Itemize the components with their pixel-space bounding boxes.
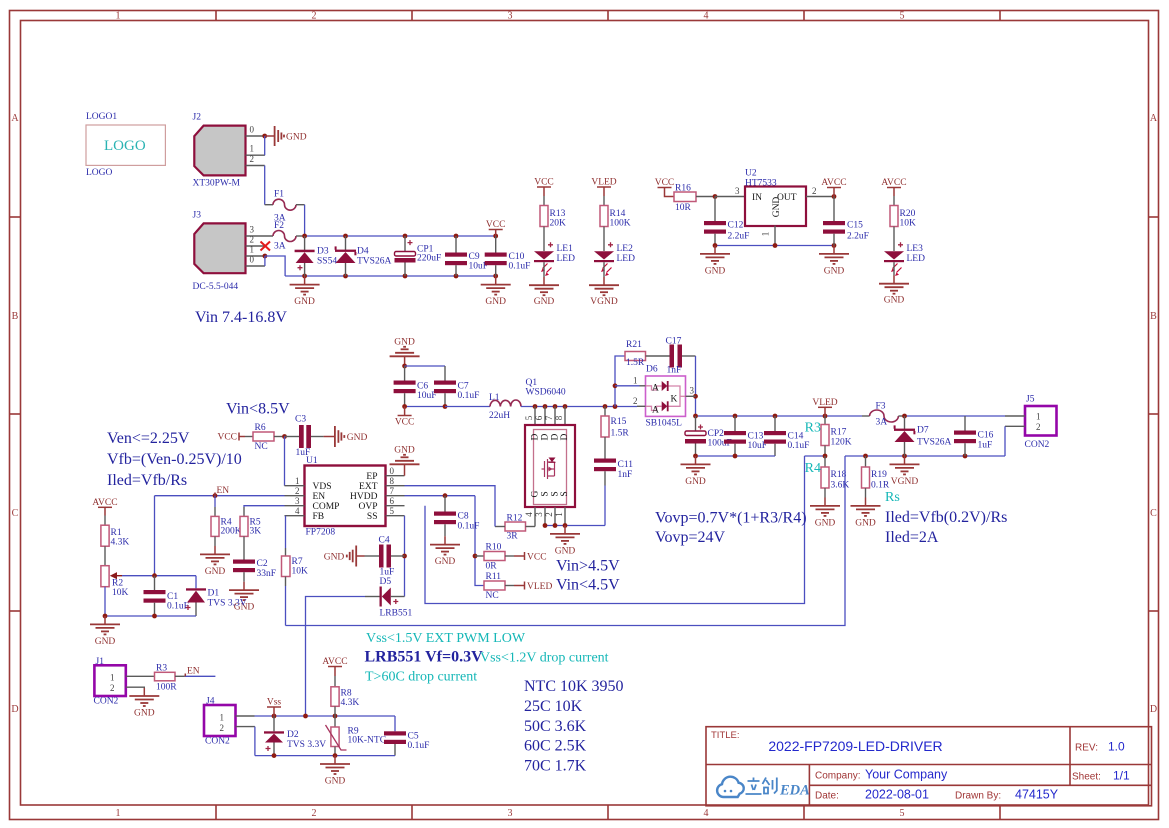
- svg-text:R7: R7: [292, 557, 303, 567]
- svg-text:VGND: VGND: [891, 477, 919, 487]
- svg-text:1: 1: [295, 476, 300, 486]
- svg-text:REV:: REV:: [1075, 743, 1098, 754]
- svg-text:GND: GND: [205, 567, 226, 577]
- power flag VCC at R16: [655, 178, 675, 197]
- svg-text:VLED: VLED: [527, 582, 552, 592]
- wire EN from U1 pin2: [155, 495, 285, 497]
- capacitor C9 10uF: [445, 236, 488, 276]
- svg-text:Date:: Date:: [815, 791, 839, 802]
- svg-text:D: D: [11, 704, 18, 715]
- svg-text:0.1uF: 0.1uF: [788, 441, 810, 451]
- svg-text:F2: F2: [274, 221, 284, 231]
- svg-text:LE2: LE2: [617, 244, 634, 254]
- capacitor C6 10uF: [394, 366, 437, 407]
- svg-text:C14: C14: [788, 432, 804, 442]
- capacitor C2 33nF: [233, 559, 276, 582]
- svg-text:LED: LED: [617, 254, 636, 264]
- transistor Q1 WSD6040: [524, 378, 575, 527]
- svg-text:Vin<8.5V: Vin<8.5V: [226, 401, 290, 418]
- ground below R18: [810, 498, 840, 529]
- svg-text:120K: 120K: [831, 438, 852, 448]
- svg-text:1: 1: [110, 673, 115, 683]
- svg-text:D: D: [551, 433, 561, 440]
- power flag VCC below C6: [395, 407, 415, 428]
- svg-text:C: C: [12, 508, 19, 519]
- LED LE1: [534, 242, 575, 277]
- junction U2 output node: [832, 194, 837, 199]
- svg-text:D6: D6: [646, 365, 658, 375]
- svg-text:R4: R4: [805, 461, 821, 476]
- svg-text:GND: GND: [772, 197, 782, 218]
- svg-text:3: 3: [295, 496, 300, 506]
- svg-text:R13: R13: [550, 209, 566, 219]
- svg-text:AVCC: AVCC: [821, 178, 846, 188]
- wire F3 to J5: [905, 415, 1006, 417]
- svg-text:60C 2.5K: 60C 2.5K: [524, 738, 587, 755]
- svg-text:2: 2: [1036, 422, 1041, 432]
- svg-text:5: 5: [524, 415, 534, 420]
- svg-text:1: 1: [116, 11, 121, 22]
- svg-text:2.2uF: 2.2uF: [847, 232, 869, 242]
- svg-text:220uF: 220uF: [417, 254, 441, 264]
- resistor R4 200K: [211, 496, 242, 546]
- svg-text:0: 0: [250, 125, 255, 135]
- power flag VLED at R11: [514, 582, 552, 593]
- svg-text:Vin>4.5V: Vin>4.5V: [556, 558, 620, 575]
- wire F1 down to input rail: [304, 205, 306, 236]
- IC U1 FP7208: [285, 456, 405, 538]
- svg-text:0.1R: 0.1R: [871, 481, 890, 491]
- svg-text:VGND: VGND: [590, 297, 618, 307]
- svg-text:VCC: VCC: [527, 553, 547, 563]
- svg-text:2: 2: [220, 723, 225, 733]
- wire VCC node to L1: [445, 406, 490, 408]
- capacitor C4 1uF: [365, 536, 405, 578]
- svg-text:47415Y: 47415Y: [1015, 788, 1059, 802]
- svg-text:1: 1: [250, 144, 255, 154]
- svg-text:1.5R: 1.5R: [626, 358, 645, 368]
- svg-text:2: 2: [312, 808, 317, 819]
- svg-text:NTC 10K 3950: NTC 10K 3950: [524, 678, 624, 695]
- ground below C2: [229, 582, 259, 613]
- svg-text:4: 4: [295, 506, 300, 516]
- svg-text:R18: R18: [831, 470, 847, 480]
- svg-text:C8: C8: [458, 512, 469, 522]
- svg-text:C3: C3: [295, 415, 306, 425]
- potentiometer R2 10K: [101, 566, 129, 616]
- wire C17 right down to output rail: [695, 356, 697, 416]
- wire EN stub: [185, 675, 216, 677]
- fuse F1 3A: [265, 190, 305, 224]
- wire C7 bottom to C6 bottom: [405, 406, 445, 408]
- svg-text:10K: 10K: [112, 588, 129, 598]
- svg-text:R10: R10: [486, 543, 502, 553]
- svg-text:J3: J3: [193, 211, 202, 221]
- svg-text:0: 0: [390, 466, 395, 476]
- capacitor C12 2.2uF: [704, 197, 749, 246]
- connector J5 CON2: [1005, 395, 1057, 451]
- svg-text:D5: D5: [380, 577, 392, 587]
- svg-text:GND: GND: [347, 433, 368, 443]
- ground flipped above C6 C7: [390, 338, 420, 367]
- svg-text:COMP: COMP: [313, 502, 340, 512]
- svg-text:1: 1: [250, 245, 255, 255]
- svg-text:Vin<4.5V: Vin<4.5V: [556, 577, 620, 594]
- svg-text:TVS26A: TVS26A: [357, 257, 391, 267]
- svg-text:6: 6: [390, 496, 395, 506]
- svg-text:2: 2: [250, 154, 255, 164]
- svg-text:CON2: CON2: [1025, 440, 1050, 450]
- ground below C8: [430, 536, 460, 567]
- LED LE3: [884, 242, 925, 276]
- svg-text:1: 1: [116, 808, 121, 819]
- resistor R8 4.3K: [331, 687, 359, 716]
- svg-text:6: 6: [534, 415, 544, 420]
- logo block LOGO1: [86, 112, 165, 178]
- resistor R10 0R: [475, 543, 514, 572]
- svg-text:G: G: [531, 490, 541, 497]
- capacitor C13 10uF: [724, 416, 767, 456]
- svg-text:Vss<1.2V drop current: Vss<1.2V drop current: [480, 651, 609, 666]
- resistor R12 3R gate: [495, 514, 535, 542]
- TVS diode D4 TVS26A: [335, 236, 392, 276]
- svg-text:2022-FP7209-LED-DRIVER: 2022-FP7209-LED-DRIVER: [768, 738, 942, 754]
- svg-text:5: 5: [390, 506, 395, 516]
- svg-text:D4: D4: [357, 247, 369, 257]
- svg-text:25C 10K: 25C 10K: [524, 698, 583, 715]
- svg-text:VCC: VCC: [486, 220, 506, 230]
- capacitor C11 1nF snubber: [594, 459, 633, 486]
- input top rail VIN: [305, 235, 496, 237]
- svg-text:GND: GND: [294, 297, 315, 307]
- svg-text:C13: C13: [748, 432, 764, 442]
- power flag AVCC above R20: [881, 178, 906, 206]
- ground below R9: [320, 756, 350, 787]
- net label EN: [215, 486, 229, 496]
- power flag VLED above R14: [591, 178, 616, 206]
- wire J2 pin2 down to F1: [264, 166, 266, 205]
- svg-text:LOGO: LOGO: [86, 168, 113, 178]
- svg-text:IN: IN: [752, 193, 762, 203]
- power flag AVCC at U2 output: [821, 178, 846, 197]
- resistor R20 10K: [890, 206, 916, 252]
- svg-text:GND: GND: [534, 297, 555, 307]
- input bottom ground rail: [285, 275, 496, 277]
- svg-text:LOGO1: LOGO1: [86, 112, 117, 122]
- regulator U2 HT7533: [735, 169, 834, 246]
- svg-text:5: 5: [900, 11, 905, 22]
- thermistor R9 10K-NTC: [326, 716, 387, 756]
- wire D5 cathode to Vss net: [306, 597, 366, 716]
- svg-text:1: 1: [1036, 412, 1041, 422]
- net label EN at R3: [185, 667, 200, 677]
- svg-text:0.1uF: 0.1uF: [167, 602, 189, 612]
- ground flag left of C4: [324, 546, 365, 567]
- svg-text:EN: EN: [187, 667, 200, 677]
- svg-text:FP7208: FP7208: [306, 528, 336, 538]
- svg-text:C15: C15: [847, 221, 863, 231]
- fuse F2 3A: [273, 221, 305, 252]
- svg-text:1nF: 1nF: [667, 366, 682, 376]
- ground flag right of C3: [324, 426, 368, 447]
- svg-text:Vfb=(Ven-0.25V)/10: Vfb=(Ven-0.25V)/10: [107, 451, 242, 468]
- svg-text:T>60C drop current: T>60C drop current: [365, 670, 477, 685]
- svg-text:10K: 10K: [900, 219, 917, 229]
- capacitor C8 0.1uF: [434, 496, 479, 537]
- svg-text:B: B: [12, 311, 19, 322]
- ground below R19: [851, 498, 881, 529]
- svg-text:50C 3.6K: 50C 3.6K: [524, 718, 587, 735]
- svg-text:CP2: CP2: [708, 429, 725, 439]
- svg-text:70C 1.7K: 70C 1.7K: [524, 758, 587, 775]
- svg-text:GND: GND: [855, 518, 876, 528]
- svg-text:GND: GND: [485, 297, 506, 307]
- svg-text:LE1: LE1: [557, 244, 574, 254]
- svg-text:D: D: [531, 433, 541, 440]
- connector J4 CON2: [204, 697, 255, 747]
- svg-text:1.5R: 1.5R: [611, 429, 630, 439]
- svg-text:C2: C2: [257, 559, 268, 569]
- svg-text:DC-5.5-044: DC-5.5-044: [193, 282, 239, 292]
- svg-text:A: A: [1150, 113, 1158, 124]
- resistor R1 4.3K: [101, 525, 129, 566]
- svg-text:TVS 3.3V: TVS 3.3V: [208, 599, 247, 609]
- svg-text:8: 8: [390, 476, 395, 486]
- svg-text:GND: GND: [325, 776, 346, 786]
- TVS diode D7 TVS26A: [894, 416, 952, 456]
- svg-text:Ven<=2.25V: Ven<=2.25V: [107, 430, 190, 447]
- svg-text:TVS26A: TVS26A: [917, 438, 951, 448]
- svg-text:1uF: 1uF: [380, 568, 395, 578]
- svg-text:D7: D7: [917, 426, 929, 436]
- capacitor C16 1uF: [954, 416, 994, 456]
- wire OVP feedback to U1: [425, 456, 805, 604]
- svg-text:R11: R11: [486, 572, 502, 582]
- svg-text:VCC: VCC: [534, 178, 554, 188]
- svg-text:XT30PW-M: XT30PW-M: [193, 179, 241, 189]
- svg-text:0R: 0R: [486, 562, 498, 572]
- resistor R19 0.1R sense: [862, 456, 890, 498]
- svg-text:S: S: [560, 491, 570, 496]
- svg-text:1: 1: [761, 232, 771, 237]
- svg-text:D1: D1: [208, 589, 220, 599]
- ground below D3: [290, 276, 320, 307]
- diode D1 TVS 3.3V: [186, 576, 247, 616]
- polarized capacitor CP2 100uF: [685, 416, 732, 456]
- svg-text:4: 4: [704, 11, 709, 22]
- svg-text:R3: R3: [156, 664, 167, 674]
- svg-text:GND: GND: [286, 133, 307, 143]
- svg-text:Rs: Rs: [885, 490, 900, 505]
- Vss bottom rail: [255, 755, 395, 757]
- ground flag at J2 pin 0: [265, 126, 307, 146]
- svg-text:1.0: 1.0: [1108, 740, 1125, 754]
- svg-text:R1: R1: [111, 528, 122, 538]
- junction VDS node: [282, 434, 287, 439]
- wire SW node up to R21: [615, 356, 625, 407]
- Vss top rail: [255, 715, 396, 717]
- no-connect X on J3 pin 2: [261, 242, 271, 251]
- resistor R15 1.5R snubber: [601, 407, 629, 459]
- svg-text:B: B: [1150, 311, 1157, 322]
- svg-text:Q1: Q1: [526, 378, 538, 388]
- svg-text:3: 3: [690, 386, 695, 396]
- svg-text:100R: 100R: [156, 683, 177, 693]
- svg-text:F1: F1: [274, 190, 284, 200]
- ground VGND below LE2: [589, 277, 619, 307]
- power flag VLED on output rail: [812, 398, 837, 416]
- svg-text:VCC: VCC: [217, 433, 237, 443]
- svg-text:2: 2: [812, 186, 817, 196]
- svg-text:LED: LED: [907, 254, 926, 264]
- ground below C12: [700, 246, 730, 277]
- capacitor C3 1uF: [285, 415, 324, 459]
- U2 ground rail: [715, 245, 834, 247]
- svg-text:R3: R3: [805, 421, 821, 436]
- ground below LE1: [529, 277, 559, 307]
- svg-text:Iled=2A: Iled=2A: [885, 529, 939, 546]
- power flag VCC on input rail: [486, 220, 506, 236]
- svg-text:C12: C12: [728, 221, 744, 231]
- resistor R11 NC: [484, 572, 514, 601]
- svg-text:2: 2: [250, 235, 255, 245]
- svg-text:100K: 100K: [610, 219, 631, 229]
- power flag VCC at R10: [514, 552, 547, 563]
- svg-text:Your Company: Your Company: [865, 768, 948, 782]
- svg-text:VCC: VCC: [655, 178, 675, 188]
- svg-text:3R: 3R: [507, 532, 519, 542]
- svg-text:C: C: [1150, 508, 1157, 519]
- svg-text:J5: J5: [1026, 395, 1035, 405]
- wire J3 pin1 to pin0: [264, 256, 266, 266]
- svg-text:8: 8: [554, 415, 564, 420]
- svg-text:U2: U2: [745, 169, 757, 179]
- svg-text:GND: GND: [134, 708, 155, 718]
- svg-text:D: D: [1150, 704, 1157, 715]
- svg-text:R14: R14: [610, 209, 626, 219]
- svg-text:4.3K: 4.3K: [111, 538, 130, 548]
- R2 wiper rail: [122, 575, 196, 577]
- capacitor C1 0.1uF: [144, 576, 189, 616]
- svg-text:GND: GND: [884, 296, 905, 306]
- svg-text:GND: GND: [705, 266, 726, 276]
- svg-text:Vss<1.5V EXT PWM LOW: Vss<1.5V EXT PWM LOW: [366, 631, 526, 646]
- svg-text:7: 7: [390, 486, 395, 496]
- LED output rail VLED: [696, 415, 863, 417]
- svg-text:10K-NTC: 10K-NTC: [348, 736, 387, 746]
- svg-text:0.1uF: 0.1uF: [458, 391, 480, 401]
- wire HVDD to R10 R11: [405, 495, 476, 497]
- svg-text:10R: 10R: [675, 203, 692, 213]
- svg-text:GND: GND: [324, 553, 345, 563]
- svg-text:10uF: 10uF: [417, 391, 437, 401]
- svg-text:D: D: [560, 433, 570, 440]
- svg-text:4: 4: [524, 512, 534, 517]
- svg-text:WSD6040: WSD6040: [526, 388, 566, 398]
- svg-text:20K: 20K: [550, 219, 567, 229]
- svg-text:D2: D2: [287, 730, 299, 740]
- svg-text:SS54: SS54: [317, 257, 337, 267]
- resistor R3 100R: [155, 664, 185, 693]
- wire C6 to C7 top: [405, 365, 445, 367]
- svg-text:Iled=Vfb(0.2V)/Rs: Iled=Vfb(0.2V)/Rs: [885, 509, 1007, 526]
- svg-text:CON2: CON2: [94, 697, 119, 707]
- svg-text:C16: C16: [978, 431, 994, 441]
- ground at J1 pin2: [129, 688, 159, 718]
- svg-text:Vovp=24V: Vovp=24V: [655, 529, 726, 546]
- wire sense node to FB network: [286, 456, 846, 626]
- capacitor C17 1nF: [666, 337, 696, 376]
- svg-text:R16: R16: [675, 184, 691, 194]
- diode D3 SS54: [295, 236, 338, 276]
- svg-text:3: 3: [735, 186, 740, 196]
- svg-text:R15: R15: [611, 417, 627, 427]
- power flag AVCC above R1: [92, 498, 117, 525]
- capacitor C15 2.2uF: [823, 197, 869, 246]
- power flag VCC above R13: [534, 178, 554, 206]
- wire J5 pin2 down to sense rail: [1004, 426, 1006, 456]
- capacitor C14 0.1uF: [764, 416, 809, 456]
- svg-text:GND: GND: [815, 518, 836, 528]
- diode D2 TVS 3.3V: [264, 716, 326, 756]
- svg-text:3.6K: 3.6K: [831, 481, 850, 491]
- ground below R4: [200, 546, 230, 577]
- output ground rail: [696, 455, 776, 457]
- resistor R7 10K: [282, 516, 309, 626]
- svg-text:Vss: Vss: [267, 698, 282, 708]
- svg-text:C1: C1: [167, 592, 178, 602]
- wire J4 pin2 to bottom rail: [254, 727, 256, 756]
- svg-text:7: 7: [544, 415, 554, 420]
- svg-text:R2: R2: [112, 579, 123, 589]
- svg-text:R21: R21: [626, 340, 642, 350]
- svg-text:1: 1: [633, 376, 638, 386]
- power flag VCC at R6: [217, 433, 253, 443]
- svg-text:AVCC: AVCC: [881, 178, 906, 188]
- svg-text:LED: LED: [557, 254, 576, 264]
- svg-text:S: S: [551, 491, 561, 496]
- svg-text:K: K: [671, 395, 678, 405]
- resistor R5 3K: [240, 507, 261, 560]
- svg-text:A: A: [11, 113, 19, 124]
- diode D5 LRB551: [365, 577, 412, 619]
- svg-text:FB: FB: [313, 512, 325, 522]
- svg-text:A: A: [652, 384, 659, 394]
- svg-text:EP: EP: [366, 472, 377, 482]
- svg-text:1uF: 1uF: [978, 441, 993, 451]
- svg-text:1/1: 1/1: [1113, 769, 1130, 783]
- wire EXT to R12: [405, 486, 496, 527]
- svg-text:R12: R12: [507, 514, 523, 524]
- svg-text:1: 1: [220, 713, 225, 723]
- svg-text:C10: C10: [509, 252, 525, 262]
- svg-text:4.3K: 4.3K: [341, 698, 360, 708]
- switch node rail: [521, 406, 637, 408]
- LED current sense rail: [845, 455, 1005, 457]
- inductor L1 22uH: [489, 393, 521, 421]
- svg-text:5: 5: [900, 808, 905, 819]
- svg-text:D3: D3: [317, 247, 329, 257]
- svg-text:1: 1: [554, 512, 564, 517]
- svg-text:2: 2: [633, 396, 638, 406]
- svg-text:3A: 3A: [274, 242, 286, 252]
- svg-text:LRB551 Vf=0.3V: LRB551 Vf=0.3V: [365, 649, 484, 666]
- svg-text:HT7533: HT7533: [745, 179, 777, 189]
- svg-text:VCC: VCC: [395, 418, 415, 428]
- svg-text:TVS 3.3V: TVS 3.3V: [287, 740, 326, 750]
- svg-text:GND: GND: [435, 557, 456, 567]
- svg-text:HVDD: HVDD: [350, 492, 378, 502]
